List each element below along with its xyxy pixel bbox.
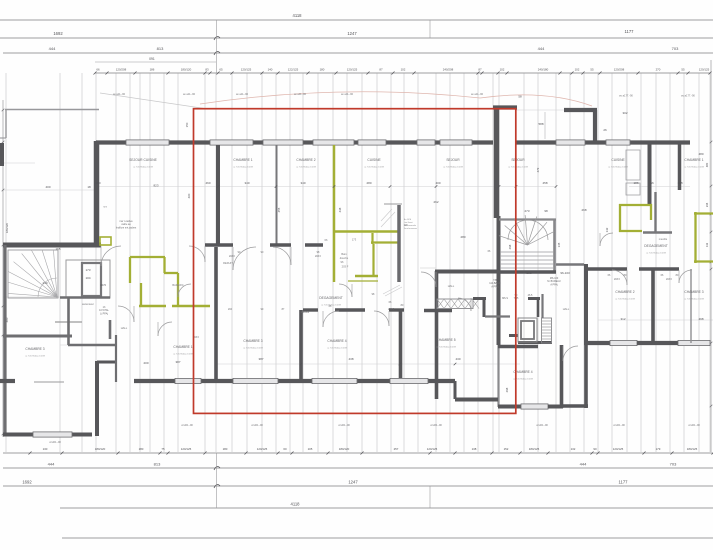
shaft top line [384, 203, 402, 205]
room labels [25, 158, 704, 381]
svg-text:4118: 4118 [292, 13, 302, 18]
svg-text:CHAMBRE 1: CHAMBRE 1 [233, 158, 252, 162]
svg-text:Lim commode: Lim commode [404, 225, 416, 227]
svg-text:186: 186 [150, 68, 155, 72]
wall west unit right [95, 361, 99, 436]
svg-text:Lim Guest: Lim Guest [404, 221, 413, 224]
svg-text:180/125: 180/125 [529, 447, 540, 451]
svg-text:130: 130 [43, 447, 48, 451]
svg-text:135: 135 [557, 242, 561, 247]
stair fan west [8, 250, 58, 298]
svg-text:Li PPAj: Li PPAj [100, 312, 108, 315]
sill labels [49, 92, 700, 444]
svg-text:83: 83 [205, 68, 209, 72]
green box west [100, 237, 111, 245]
svg-text:823: 823 [153, 184, 158, 188]
svg-text:444: 444 [49, 46, 56, 51]
svg-text:120/125: 120/125 [347, 68, 358, 72]
wall north facade [96, 140, 493, 144]
stair ladder right [542, 318, 552, 343]
svg-text:180/120: 180/120 [181, 68, 192, 72]
wall partition x301 [299, 310, 303, 381]
svg-text:280: 280 [460, 235, 465, 239]
green wall bath west [130, 257, 178, 306]
wall partition x653 [651, 269, 655, 343]
wall partition x691 [690, 269, 692, 343]
window west unit bottom [33, 432, 72, 437]
svg-text:av a11.-90: av a11.-90 [471, 92, 484, 96]
wall north step vertical [494, 106, 500, 218]
svg-text:120/208: 120/208 [116, 68, 127, 72]
svg-text:588: 588 [538, 122, 543, 126]
svg-text:120/125: 120/125 [427, 447, 438, 451]
wall partition x656 [654, 192, 656, 232]
wall chambre4 right side [560, 345, 564, 408]
svg-text:268: 268 [581, 208, 586, 212]
svg-text:120/208: 120/208 [614, 68, 625, 72]
wall west vertical x96 [94, 141, 100, 245]
svg-text:813: 813 [154, 462, 161, 467]
svg-text:ac 7.05 Rideau 134 M: ac 7.05 Rideau 134 M [646, 253, 666, 255]
svg-text:90: 90 [593, 447, 597, 451]
wall right hall vertical [541, 294, 543, 318]
wall corridor top [435, 270, 499, 274]
svg-text:BAD+WC: BAD+WC [172, 283, 183, 287]
svg-text:CUISINE: CUISINE [611, 158, 625, 162]
green wall x334 [333, 145, 336, 282]
svg-text:460: 460 [187, 193, 191, 198]
svg-text:173: 173 [85, 268, 90, 272]
svg-text:813: 813 [157, 46, 164, 51]
svg-text:u=a51.-90: u=a51.-90 [536, 423, 548, 427]
svg-text:98: 98 [544, 209, 548, 213]
wall hall west [68, 298, 116, 382]
svg-text:ac 7.05 Rideau 134 M: ac 7.05 Rideau 134 M [233, 167, 253, 169]
svg-text:ac 7.05 Rideau 134 M: ac 7.05 Rideau 134 M [436, 347, 456, 349]
svg-text:CHAMBRE 3: CHAMBRE 3 [684, 290, 703, 294]
svg-text:Au 10 M: Au 10 M [404, 218, 411, 221]
svg-text:55: 55 [590, 68, 594, 72]
svg-text:179: 179 [656, 447, 661, 451]
door size marks [193, 250, 679, 339]
svg-text:MS.S: MS.S [502, 297, 508, 300]
svg-text:26: 26 [603, 128, 607, 132]
svg-text:av a177.-90: av a177.-90 [619, 94, 633, 98]
svg-text:236: 236 [705, 202, 709, 207]
svg-text:091: 091 [149, 57, 155, 61]
wall partition x499 [497, 216, 501, 407]
svg-text:262: 262 [433, 200, 438, 204]
svg-text:CUISINE: CUISINE [367, 158, 381, 162]
svg-text:A PPAj: A PPAj [491, 285, 499, 288]
closet outlines sejour2 [626, 150, 640, 195]
stair center [499, 215, 556, 273]
svg-text:460: 460 [205, 181, 210, 185]
svg-text:473: 473 [536, 167, 540, 172]
svg-text:60: 60 [283, 447, 287, 451]
svg-text:SEJOUR CUISINE: SEJOUR CUISINE [129, 158, 157, 162]
svg-text:1177: 1177 [618, 480, 628, 485]
svg-text:u=a51.-90: u=a51.-90 [688, 423, 700, 427]
svg-text:152: 152 [504, 447, 509, 451]
svg-text:meuble: meuble [301, 310, 310, 314]
svg-text:56: 56 [650, 181, 654, 185]
svg-text:180: 180 [139, 447, 144, 451]
svg-text:u=a51.-90: u=a51.-90 [613, 423, 625, 427]
svg-text:u=a51.-90: u=a51.-90 [49, 440, 61, 444]
svg-text:444: 444 [580, 462, 587, 467]
svg-text:142: 142 [605, 227, 609, 232]
svg-text:203 F: 203 F [666, 278, 673, 281]
svg-text:DEGAGEMENT: DEGAGEMENT [644, 244, 667, 248]
svg-text:102: 102 [575, 68, 580, 72]
wall chambre4 right top [498, 345, 538, 348]
wall north right step top [564, 108, 597, 112]
svg-text:240: 240 [42, 281, 47, 285]
wall partition x400 [399, 310, 403, 381]
svg-text:203 F: 203 F [388, 308, 395, 311]
svg-text:270: 270 [656, 68, 661, 72]
svg-text:CHAMBRE 3: CHAMBRE 3 [243, 339, 262, 343]
svg-text:438: 438 [338, 207, 342, 212]
svg-text:ac 7.05 Rideau 134 M: ac 7.05 Rideau 134 M [133, 167, 153, 169]
svg-text:150: 150 [185, 122, 189, 127]
svg-text:CHAMBRE 1: CHAMBRE 1 [173, 345, 192, 349]
svg-text:1692: 1692 [53, 31, 63, 36]
wall west unit mid [3, 320, 110, 339]
svg-text:480: 480 [705, 162, 709, 167]
svg-text:298: 298 [508, 244, 512, 249]
wall chambre4 right bottom [498, 404, 563, 409]
wall corridor right bottom [584, 267, 679, 271]
interior dimension numbers [5, 95, 709, 393]
red highlight rectangle [194, 109, 516, 414]
svg-text:498: 498 [698, 317, 703, 321]
svg-text:CHAMBRE 3: CHAMBRE 3 [25, 347, 44, 351]
svg-text:SEJOUR: SEJOUR [446, 158, 460, 162]
dimension chain bottom [22, 447, 713, 508]
svg-text:ac 7.05 Rideau 134 M: ac 7.05 Rideau 134 M [296, 167, 316, 169]
svg-text:400: 400 [435, 181, 440, 185]
elevator right [518, 318, 537, 342]
wall hall nib [473, 298, 552, 343]
svg-text:ac 7.05 Rideau 134 M: ac 7.05 Rideau 134 M [364, 167, 384, 169]
svg-text:438: 438 [348, 357, 353, 361]
svg-text:400: 400 [45, 185, 50, 189]
terrace outline top-left [0, 93, 208, 138]
svg-text:102: 102 [500, 68, 505, 72]
svg-text:120/125: 120/125 [699, 68, 710, 72]
roof outline arcs [200, 92, 592, 106]
svg-text:165: 165 [55, 247, 60, 251]
svg-text:120/125: 120/125 [241, 68, 252, 72]
svg-text:ac 7.05 Rideau 134 M: ac 7.05 Rideau 134 M [25, 356, 45, 358]
svg-text:200: 200 [143, 361, 148, 365]
svg-text:96-103: 96-103 [560, 271, 570, 275]
wall north right step vertical [545, 110, 595, 143]
svg-text:av a11.-90: av a11.-90 [294, 92, 307, 96]
svg-text:DEGAGEMENT: DEGAGEMENT [319, 296, 342, 300]
green wall bath mid [334, 232, 398, 282]
window south red unit [175, 378, 428, 383]
wall west interior y297 [60, 296, 110, 299]
green wall corridor west [139, 305, 210, 307]
svg-text:180: 180 [223, 447, 228, 451]
svg-text:1692: 1692 [22, 480, 32, 485]
svg-text:180/125: 180/125 [687, 447, 698, 451]
svg-text:444: 444 [538, 46, 545, 51]
svg-text:257: 257 [394, 447, 399, 451]
svg-text:148: 148 [677, 181, 682, 185]
svg-text:240/180: 240/180 [538, 68, 549, 72]
svg-text:132: 132 [571, 447, 576, 451]
svg-text:av a177.-90: av a177.-90 [681, 94, 695, 98]
wall partition x276 [276, 145, 278, 244]
svg-text:703: 703 [670, 462, 677, 467]
wall partition x218 [216, 145, 220, 244]
svg-text:87: 87 [379, 68, 383, 72]
wall south red unit [0, 379, 455, 383]
wall partition x586 [584, 264, 588, 344]
svg-text:Bain: Bain [341, 252, 347, 256]
wall west unit left [3, 245, 6, 436]
wall partition x216 lower [214, 247, 218, 381]
svg-text:102: 102 [401, 68, 406, 72]
svg-text:CHAMBRE 5: CHAMBRE 5 [436, 338, 455, 342]
svg-text:387: 387 [258, 357, 263, 361]
svg-text:meuble: meuble [659, 237, 668, 241]
wall partition x436 [435, 271, 439, 399]
svg-text:REDUIT: REDUIT [223, 261, 233, 265]
svg-text:455: 455 [277, 207, 281, 212]
svg-text:u=a51.-90: u=a51.-90 [251, 423, 263, 427]
svg-text:ac 7.05 Rideau 134 M: ac 7.05 Rideau 134 M [243, 348, 263, 350]
svg-text:120/125: 120/125 [181, 447, 192, 451]
svg-text:360: 360 [95, 181, 100, 185]
wall kitchen partition right [650, 143, 680, 206]
wall corridor row y310 [303, 308, 452, 312]
svg-text:87: 87 [478, 68, 482, 72]
svg-text:400: 400 [5, 317, 9, 322]
svg-text:1247: 1247 [347, 31, 357, 36]
wall right room east [563, 344, 588, 408]
svg-text:ac 7.05 Rideau 134 M: ac 7.05 Rideau 134 M [684, 299, 704, 301]
svg-text:203: 203 [526, 271, 531, 275]
interior dimension ticks [217, 185, 558, 365]
wall west unit inner [34, 362, 116, 382]
svg-text:u=a51.-90: u=a51.-90 [181, 423, 193, 427]
svg-text:703: 703 [672, 46, 679, 51]
svg-text:65: 65 [219, 68, 223, 72]
svg-text:ascenseur: ascenseur [82, 302, 94, 306]
wall hall south step [455, 381, 498, 400]
svg-text:ac 7.05 Rideau 134 M: ac 7.05 Rideau 134 M [327, 348, 347, 350]
wall west unit bottom [3, 433, 92, 437]
svg-text:CHAMBRE 2: CHAMBRE 2 [296, 158, 315, 162]
svg-text:55: 55 [681, 68, 685, 72]
wall north right facade [516, 140, 690, 144]
svg-text:240/208: 240/208 [443, 68, 454, 72]
svg-text:1247: 1247 [348, 480, 358, 485]
svg-text:66: 66 [96, 68, 100, 72]
wall hall right y264 [556, 263, 584, 265]
svg-text:180/120: 180/120 [5, 223, 9, 234]
svg-text:444: 444 [48, 462, 55, 467]
wall shaft x399 [397, 205, 401, 282]
svg-text:ac 7.05 Rideau 134 M: ac 7.05 Rideau 134 M [173, 354, 193, 356]
svg-text:ac 7.05 Rideau 134 M: ac 7.05 Rideau 134 M [608, 167, 628, 169]
svg-text:HALL: HALL [448, 284, 455, 288]
svg-text:58: 58 [518, 95, 522, 99]
svg-text:av a11.-90: av a11.-90 [113, 92, 126, 96]
dimension chain top [49, 13, 712, 75]
svg-text:ac 7.05 Rideau 134 M: ac 7.05 Rideau 134 M [443, 167, 463, 169]
door swing arcs [101, 233, 692, 361]
elevator west [66, 260, 110, 298]
svg-text:46.5: 46.5 [528, 294, 533, 297]
svg-text:480: 480 [698, 152, 703, 156]
svg-text:280: 280 [366, 181, 371, 185]
wall corridor right top [643, 231, 672, 233]
svg-text:387: 387 [175, 360, 180, 364]
svg-text:ac 7.05 Rideau 134 M: ac 7.05 Rideau 134 M [615, 299, 635, 301]
svg-text:204: 204 [228, 308, 233, 311]
svg-text:203 F: 203 F [342, 265, 349, 269]
closet hatched hall [437, 299, 479, 309]
svg-text:u=a51.-90: u=a51.-90 [430, 423, 442, 427]
svg-text:SEJOUR: SEJOUR [511, 158, 525, 162]
svg-text:feuillure mrt.cadres: feuillure mrt.cadres [116, 226, 137, 229]
svg-text:203 F: 203 F [614, 278, 621, 281]
svg-text:203 F: 203 F [229, 255, 236, 258]
svg-text:340: 340 [300, 181, 305, 185]
svg-text:av a11.-90: av a11.-90 [236, 92, 249, 96]
svg-text:av a11.-90: av a11.-90 [183, 92, 196, 96]
svg-text:T.T: T.T [103, 205, 107, 209]
svg-text:180/120: 180/120 [95, 447, 106, 451]
svg-text:298: 298 [505, 387, 509, 392]
shower hatch [381, 209, 402, 296]
svg-text:120/125: 120/125 [613, 447, 624, 451]
svg-text:186: 186 [633, 181, 638, 185]
wall north step top [493, 105, 517, 109]
svg-text:180/120: 180/120 [339, 447, 350, 451]
svg-text:140: 140 [268, 68, 273, 72]
svg-text:1177: 1177 [624, 29, 634, 34]
svg-text:340: 340 [244, 181, 249, 185]
svg-text:180: 180 [320, 68, 325, 72]
svg-text:douche: douche [340, 256, 349, 260]
svg-text:173: 173 [352, 238, 357, 242]
wall row y245 [205, 243, 323, 246]
svg-text:40.5: 40.5 [100, 283, 106, 287]
window band north [126, 140, 472, 145]
svg-text:18: 18 [87, 185, 91, 189]
svg-text:104: 104 [85, 276, 90, 280]
svg-text:302: 302 [622, 111, 627, 115]
svg-text:ac 7.05 Rideau 134 M: ac 7.05 Rideau 134 M [684, 167, 704, 169]
svg-text:HALL: HALL [563, 307, 570, 311]
svg-text:u=a51.-90: u=a51.-90 [338, 423, 350, 427]
window north right [556, 140, 630, 145]
hall annotations [99, 220, 561, 315]
wall pier left edge [0, 143, 4, 166]
svg-text:CHAMBRE 2: CHAMBRE 2 [615, 290, 634, 294]
svg-text:120/125: 120/125 [257, 447, 268, 451]
svg-text:A PPAj: A PPAj [550, 283, 558, 286]
green bath right [619, 204, 652, 232]
svg-text:ac 7.05 Rideau 134 M: ac 7.05 Rideau 134 M [508, 167, 528, 169]
svg-text:458: 458 [542, 181, 547, 185]
svg-text:CHAMBRE 4: CHAMBRE 4 [327, 339, 346, 343]
svg-text:4118: 4118 [290, 502, 300, 507]
svg-text:HALL: HALL [121, 326, 128, 330]
svg-text:142: 142 [705, 242, 709, 247]
svg-text:430: 430 [455, 357, 460, 361]
wall west unit top [3, 243, 101, 248]
svg-text:Faucheureuses: Faucheureuses [404, 227, 417, 230]
svg-text:312: 312 [620, 317, 625, 321]
svg-text:CHAMBRE 1: CHAMBRE 1 [684, 158, 703, 162]
svg-text:122/125: 122/125 [288, 68, 299, 72]
svg-text:203 F: 203 F [315, 255, 322, 258]
wall south right unit [584, 340, 710, 345]
svg-text:av a11.-90: av a11.-90 [341, 92, 354, 96]
svg-text:273: 273 [524, 209, 529, 213]
svg-text:138: 138 [472, 447, 477, 451]
green wall far right [694, 212, 713, 263]
svg-text:105: 105 [308, 447, 313, 451]
svg-text:75: 75 [161, 447, 165, 451]
small labels [82, 205, 668, 330]
